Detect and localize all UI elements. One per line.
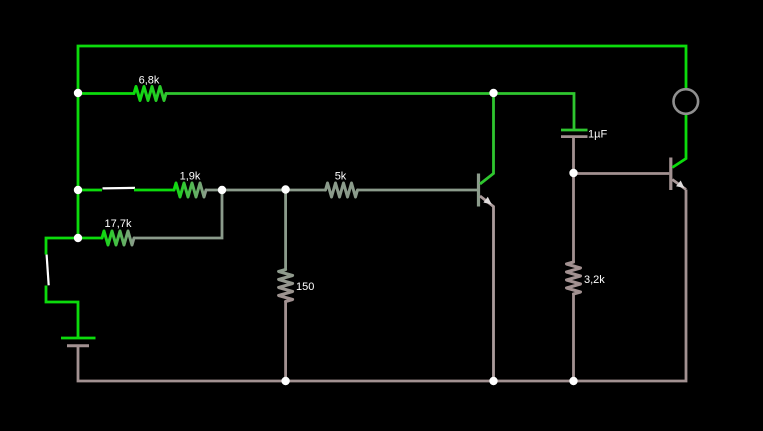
wire: node(573.5,173) down to R 3,2k top — [572, 174, 575, 263]
node dot (78,93) — [74, 89, 82, 97]
transistor Q1 emitter — [480, 196, 494, 381]
wire: left supply rail + top supply rail + ammeter top lead — [78, 46, 686, 238]
node dot (285.6,381) — [281, 377, 289, 385]
transistor Q1 base bar — [477, 174, 480, 207]
transistor Q1 collector — [480, 93, 494, 184]
resistor R 3,2k vertical zigzag — [567, 262, 581, 294]
capacitor C1 bottom plate — [561, 135, 588, 138]
wire: switch S2 bottom to battery + — [46, 286, 78, 338]
ammeter A1 circle — [674, 89, 699, 114]
resistor R 17,7k zigzag — [102, 231, 134, 245]
node dot (222,190) — [218, 186, 226, 194]
capacitor C1 top plate — [561, 129, 588, 132]
node dot (493.5,381) — [489, 377, 497, 385]
node dot (573.5,381) — [569, 377, 577, 385]
wire: R 6,8k right to capacitor top corner (collector1 net) — [166, 94, 574, 131]
resistor R 6,8k zigzag — [134, 87, 166, 101]
battery V1 positive plate — [61, 337, 96, 340]
svg-text:17,7k: 17,7k — [105, 218, 132, 230]
transistor Q1 emitter arrow — [483, 197, 491, 205]
wire: node(573.5,173) to Q2 base — [574, 172, 670, 175]
wire: node(78,238) to R 17,7k left lead — [78, 237, 102, 240]
battery V1 negative plate — [67, 344, 89, 347]
wire: R 1,9k right to node(222,190) to node(285.6,190) to R 5k — [206, 189, 326, 192]
transistor Q2 emitter arrow — [676, 181, 684, 189]
wire: battery branch from node(78,238) to switch S2 — [46, 238, 78, 255]
svg-text:150: 150 — [296, 281, 314, 293]
wire: battery - down to ground rail, full bottom rail, up to Q2 emitter — [78, 190, 686, 382]
resistor R 150 vertical zigzag — [279, 270, 293, 302]
wire: R 150 bottom to ground rail — [284, 302, 287, 382]
transistor Q2 emitter — [672, 180, 686, 190]
wire: R 3,2k bottom to ground rail — [572, 294, 575, 381]
svg-text:1,9k: 1,9k — [180, 171, 201, 183]
node dot (493.5,93) — [489, 89, 497, 97]
node dot (78,238) — [74, 234, 82, 242]
wire: R 5k right to Q1 base — [358, 189, 478, 192]
wire: capacitor bottom to node(573.5,173) — [572, 137, 575, 174]
node dot (285.6,190) — [281, 185, 289, 193]
node dot (78,190) — [74, 186, 82, 194]
switch S2 lever (closed) — [47, 255, 49, 286]
svg-text:1µF: 1µF — [588, 129, 607, 141]
svg-text:6,8k: 6,8k — [139, 75, 160, 87]
wire: node(78,93) to R 6,8k left lead — [78, 92, 134, 95]
resistor R 1,9k zigzag — [174, 183, 206, 197]
svg-text:5k: 5k — [335, 171, 347, 183]
node dot (573.5,173) — [569, 169, 577, 177]
transistor Q2 collector — [672, 114, 686, 168]
wire: R 17,7k right up to node(222,190) — [134, 190, 222, 238]
transistor Q2 base bar — [669, 158, 672, 191]
wire: node(78,190) to switch S1 left post — [78, 189, 102, 192]
wire: node(285.6,190) down to R 150 top — [284, 190, 287, 270]
resistor R 5k zigzag — [326, 183, 358, 197]
wire: switch S1 right post to R 1,9k left lead — [134, 189, 174, 192]
svg-text:3,2k: 3,2k — [584, 274, 605, 286]
switch S1 lever (closed) — [103, 187, 136, 190]
